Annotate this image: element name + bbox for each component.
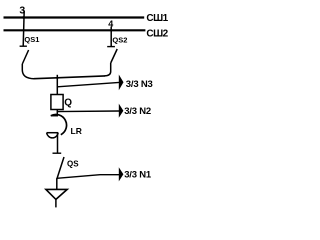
reactor LR cup top [47,132,59,134]
wire tap stub 3 [23,11,24,47]
svg-text:СШ2: СШ2 [146,29,168,40]
svg-text:QS1: QS1 [24,35,39,44]
svg-text:3/3 N2: 3/3 N2 [124,106,151,117]
reactor LR arc [51,114,67,134]
breaker Q box [51,95,63,110]
disconnector QS fixed contact tick [53,152,62,154]
svg-text:Q: Q [64,97,72,108]
svg-text:QS2: QS2 [112,36,127,45]
svg-text:QS: QS [67,159,79,168]
disconnector QS1 blade [22,50,28,64]
fault arrow N2 [119,104,124,118]
reactor LR top turn [51,115,58,117]
fault line N1 [57,175,119,179]
junction dot tie bar [56,77,58,79]
fault arrow N3 [119,75,124,91]
bus CSh2 [4,29,146,31]
disconnector QS1 fixed contact tick [20,45,27,47]
reactor LR cup arc [47,133,59,138]
wire feeder stub [55,199,57,207]
svg-text:3/3 N1: 3/3 N1 [124,170,152,181]
wire reactor to QS [57,133,59,154]
fault line N2 [57,110,119,113]
junction dot tap3 on bus1 [22,16,24,18]
wire QS to feeder arrow [56,178,58,189]
wire breaker to reactor [56,109,58,115]
tie bar wire [34,76,105,79]
fault line N3 [57,82,119,86]
wire tap stub 4 [110,27,112,48]
disconnector QS2 blade [111,49,118,63]
wire QS2 leg to tie bar [105,63,111,76]
fault arrow N1 [119,167,124,181]
disconnector QS2 fixed contact tick [107,46,115,48]
disconnector QS blade [57,157,64,180]
svg-text:СШ1: СШ1 [146,13,168,24]
wire QS1 leg to tie bar [22,64,34,79]
wire junction to breaker [56,75,58,95]
junction dot tap4 on bus2 [110,29,112,31]
svg-text:3/3 N3: 3/3 N3 [126,79,153,90]
feeder arrow triangle [46,189,67,199]
bus CSh1 [4,16,145,18]
svg-text:LR: LR [71,126,82,136]
